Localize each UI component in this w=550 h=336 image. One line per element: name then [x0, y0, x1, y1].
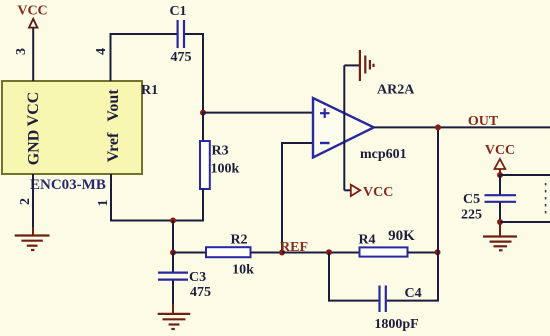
wire C4 right up to node E — [387, 253, 438, 301]
svg-text:R4: R4 — [358, 233, 375, 248]
wire C3 to ground — [172, 281, 174, 305]
svg-text:OUT: OUT — [468, 114, 499, 129]
power bar symbol (rotated ground) — [360, 50, 374, 81]
wire node A to op-amp + input — [203, 112, 313, 114]
svg-text:225: 225 — [461, 208, 482, 223]
wire REF to R4 — [282, 252, 360, 254]
wire node G to right edge — [500, 221, 550, 223]
op-amp U AR2A — [313, 98, 374, 158]
svg-text:mcp601: mcp601 — [360, 147, 407, 162]
node F junction — [497, 172, 503, 178]
wire pin1 to R3 bottom — [110, 220, 204, 222]
wire REF node up to op-amp - input — [282, 143, 313, 253]
node REF junction — [279, 250, 285, 256]
node A junction — [200, 110, 206, 116]
op-amp - mark — [320, 142, 330, 144]
svg-text:VCC: VCC — [485, 143, 515, 158]
capacitor C4 — [378, 286, 380, 313]
clipped label marks at right edge — [545, 183, 547, 213]
node OUT junction — [435, 124, 441, 130]
wire op-amp output — [374, 126, 550, 128]
svg-text:475: 475 — [190, 285, 211, 300]
IC R1 body ENC03-MB — [2, 81, 142, 174]
resistor R3 — [200, 141, 210, 189]
wire node C down to C3 — [172, 253, 174, 273]
svg-text:1800pF: 1800pF — [374, 317, 418, 332]
svg-text:Vout: Vout — [105, 89, 122, 122]
wire node E up to output — [437, 127, 439, 252]
svg-text:4: 4 — [94, 48, 109, 55]
svg-text:C5: C5 — [463, 192, 480, 207]
node E junction — [435, 249, 441, 255]
svg-text:VCC: VCC — [25, 92, 42, 127]
ground stub pin2 — [32, 227, 34, 236]
node C junction — [170, 250, 176, 256]
wire node A down to R3 — [202, 113, 204, 141]
node G junction — [497, 219, 503, 225]
resistor R2 — [206, 247, 251, 257]
svg-text:90K: 90K — [388, 228, 415, 244]
svg-text:ENC03-MB: ENC03-MB — [30, 177, 106, 193]
capacitor C5 — [485, 194, 517, 196]
wire node F down to C5 — [499, 175, 501, 195]
svg-text:2: 2 — [18, 198, 33, 205]
wire node D down to C4 — [329, 253, 378, 301]
svg-text:R1: R1 — [141, 83, 158, 98]
svg-text:GND: GND — [26, 130, 43, 166]
wire pin4 up and right to C1 — [111, 34, 177, 81]
svg-text:1: 1 — [96, 200, 111, 207]
wire node B down — [172, 221, 174, 253]
svg-text:R2: R2 — [230, 233, 247, 248]
wire to power bar symbol — [344, 64, 359, 66]
svg-text:VCC: VCC — [17, 4, 47, 19]
capacitor C3 — [158, 272, 188, 274]
node B junction — [170, 218, 176, 224]
wire node F to right edge — [500, 174, 550, 176]
ground stub C5 — [499, 222, 501, 236]
node D junction — [326, 249, 332, 255]
capacitor C1 — [177, 20, 179, 48]
svg-text:3: 3 — [14, 48, 29, 55]
wire pin1 down — [110, 174, 112, 221]
wire R4 to node E — [408, 252, 439, 254]
wire C1 right down to node A — [185, 34, 203, 113]
wire pin2 down — [32, 174, 34, 227]
svg-text:475: 475 — [171, 50, 192, 65]
op-amp + mark — [320, 108, 330, 118]
wire R2 to REF node — [251, 252, 283, 254]
power VCC arrow top-left — [29, 19, 37, 28]
svg-text:Vref: Vref — [105, 132, 122, 162]
wire C5 down to node G — [499, 203, 501, 223]
power VCC arrow (C5) — [495, 159, 506, 169]
svg-text:AR2A: AR2A — [377, 83, 415, 98]
stub VCC arrow to node F — [499, 169, 501, 175]
wire pin3 to VCC — [32, 29, 34, 82]
svg-text:10k: 10k — [232, 263, 254, 278]
svg-text:R3: R3 — [212, 144, 229, 159]
ground under C3 — [158, 314, 191, 329]
wire R3 bottom — [202, 189, 204, 221]
ground under pin2 — [15, 236, 50, 251]
ground stub C3 — [172, 304, 174, 314]
ground under C5 — [483, 237, 517, 251]
svg-text:100k: 100k — [211, 162, 240, 177]
wire node C to R2 — [173, 252, 206, 254]
VCC arrow below op-amp — [344, 189, 350, 191]
svg-text:C4: C4 — [405, 286, 422, 301]
svg-text:C1: C1 — [169, 4, 186, 19]
svg-text:C3: C3 — [189, 270, 206, 285]
svg-text:VCC: VCC — [363, 185, 393, 200]
resistor R4 — [360, 247, 408, 256]
op-amp power line — [343, 65, 345, 190]
